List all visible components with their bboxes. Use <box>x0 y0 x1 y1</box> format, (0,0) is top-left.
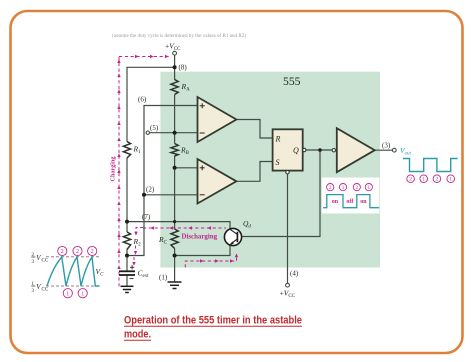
svg-text:2: 2 <box>356 185 359 191</box>
junction Q output node <box>318 148 322 152</box>
resistor RC <box>171 229 178 249</box>
svg-text:CC: CC <box>42 288 49 293</box>
svg-text:1: 1 <box>66 291 69 297</box>
inverter bubble <box>332 149 335 152</box>
svg-text:R: R <box>275 135 281 144</box>
wire RB to divider node <box>174 156 176 229</box>
svg-text:2: 2 <box>91 249 94 255</box>
resistor RB <box>171 144 178 157</box>
comparator 1 <box>198 97 237 142</box>
svg-text:2: 2 <box>61 249 64 255</box>
title caption <box>124 314 302 340</box>
legend box <box>322 178 380 214</box>
svg-text:(4): (4) <box>290 270 299 278</box>
resistor R1 <box>123 142 130 159</box>
svg-text:S: S <box>276 158 280 167</box>
svg-text:1: 1 <box>342 185 345 191</box>
junction pin 5 / control node <box>173 131 177 135</box>
svg-text:(5): (5) <box>150 124 159 132</box>
junction pin 8 node <box>173 65 177 69</box>
svg-text:Discharging: Discharging <box>182 232 218 241</box>
junction RC-ground node <box>173 254 177 258</box>
ground under Cext <box>121 286 134 292</box>
svg-text:1: 1 <box>81 291 84 297</box>
svg-text:on: on <box>332 199 339 205</box>
sawtooth numbers 2 <box>58 246 97 255</box>
svg-text:(2): (2) <box>146 186 155 194</box>
terminal pin 3 <box>392 148 396 152</box>
charging path top dashes <box>119 56 169 58</box>
wire inverter out pin3 <box>375 149 393 151</box>
VC sawtooth thresholds <box>46 256 101 258</box>
wire top-left Vcc branch <box>127 67 175 141</box>
junction pin 2 node <box>142 193 146 197</box>
svg-text:2: 2 <box>329 185 332 191</box>
wire pin5 <box>150 132 198 134</box>
svg-text:Charging: Charging <box>110 156 117 182</box>
output wave numbers <box>407 175 455 183</box>
svg-text:on: on <box>360 199 367 205</box>
resistor RA <box>171 80 178 95</box>
wire comp1 out to R <box>236 120 272 139</box>
comparator 2 <box>198 159 237 204</box>
terminal +VCC top <box>173 51 177 55</box>
svg-text:(7): (7) <box>142 213 151 221</box>
svg-text:mode.: mode. <box>124 328 151 340</box>
wire pin7 run <box>127 222 230 229</box>
svg-text:off: off <box>346 199 354 205</box>
svg-text:2: 2 <box>76 249 79 255</box>
wire Q to inverter <box>306 149 332 151</box>
wire VCC stem <box>127 55 392 286</box>
svg-text:2: 2 <box>409 177 412 183</box>
wire comp2 out to S <box>236 162 272 182</box>
555 block background <box>160 72 380 268</box>
svg-text:(1): (1) <box>159 274 168 282</box>
latch Q bubble <box>303 148 306 151</box>
wire comp2 plus <box>175 167 198 169</box>
charging path dashes <box>118 57 120 287</box>
latch bottom bubble <box>286 171 289 174</box>
wire FF reset to pin4 <box>287 174 289 284</box>
resistor R2 <box>123 232 130 250</box>
junction R2-Cext node <box>125 254 129 258</box>
sawtooth numbers 1 <box>63 289 87 298</box>
svg-text:1: 1 <box>368 185 371 191</box>
wire trigger column <box>127 106 198 256</box>
junction pin 7 node at R1-R2 <box>125 220 129 224</box>
svg-text:2: 2 <box>436 177 439 183</box>
latch box <box>273 129 303 170</box>
svg-text:(6): (6) <box>138 96 147 104</box>
svg-text:(3): (3) <box>382 142 391 150</box>
junction RB-RC divider node <box>173 166 177 170</box>
VC sawtooth wave <box>47 257 100 286</box>
wire RC to gnd node <box>174 249 176 282</box>
svg-text:CC: CC <box>42 259 49 264</box>
ground pin1 <box>168 282 182 289</box>
svg-text:Operation of the 555 timer in: Operation of the 555 timer in the astabl… <box>124 314 302 326</box>
output square wave <box>403 159 458 172</box>
svg-text:1: 1 <box>422 177 425 183</box>
discharging dashes on pin7 line <box>143 227 226 229</box>
label 2/3 Vcc <box>31 253 49 265</box>
discharge hook arrows at R2 <box>136 228 143 234</box>
discharge dashes bottom (emitter path) <box>185 256 236 268</box>
label 1/3 Vcc <box>31 282 49 294</box>
terminal pin 5 <box>146 131 149 134</box>
transistor Qd <box>224 228 241 245</box>
junction RC top on pin7 line <box>173 220 176 223</box>
capacitor Cext <box>119 270 135 272</box>
wire emitter run <box>175 245 230 256</box>
inverter U3 <box>337 128 375 172</box>
wire pin2 <box>144 194 198 196</box>
wire R1-R2 column <box>126 158 128 232</box>
svg-text:1: 1 <box>449 177 452 183</box>
svg-text:Q: Q <box>293 146 299 155</box>
svg-text:(8): (8) <box>179 64 188 72</box>
terminal pin 4 <box>286 283 290 287</box>
wire RA to node5 <box>174 95 176 144</box>
svg-text:555: 555 <box>283 74 301 88</box>
wire base run <box>242 150 320 237</box>
svg-text:(assume the duty cycle is dete: (assume the duty cycle is determined by … <box>112 34 246 39</box>
